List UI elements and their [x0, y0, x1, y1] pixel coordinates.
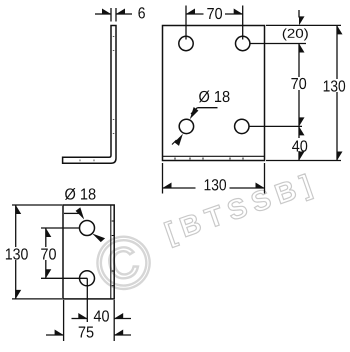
plan hole bottom	[80, 271, 95, 286]
side view L profile	[63, 26, 116, 164]
dimension 75 bottom plan	[46, 334, 131, 336]
bend line plan view	[110, 205, 112, 299]
right side extension lines	[250, 25, 342, 160]
dimension 70 left plan	[41, 228, 87, 278]
dimension 70 top	[186, 6, 243, 40]
plan view rectangle	[63, 205, 114, 299]
bend line front view	[163, 155, 265, 157]
plan hole top	[80, 221, 95, 236]
front view rectangle	[163, 26, 265, 161]
watermark copyright symbol	[92, 231, 156, 295]
dimension 40 right	[298, 126, 300, 160]
bend dots front view	[175, 158, 243, 160]
text 6	[138, 7, 144, 18]
bend dots plan view	[112, 221, 114, 286]
label diameter 18 plan view	[65, 188, 95, 200]
text 70 top	[207, 8, 222, 19]
dimension 40 bottom plan	[72, 318, 132, 320]
hole top-left	[179, 36, 193, 50]
dimension 130 right	[336, 25, 338, 160]
dimension (20) right	[298, 10, 300, 18]
hole bottom-right	[235, 119, 249, 133]
hole bottom-left	[179, 119, 193, 133]
bottom extension lines plan	[64, 278, 115, 341]
dimension 70 right	[298, 44, 300, 127]
dimension 6 (thickness)	[95, 8, 132, 22]
hole top-right	[236, 36, 250, 50]
dimension 130 left plan	[12, 205, 62, 299]
side view hole tick marks	[80, 37, 114, 162]
dimension 130 bottom of front view	[163, 163, 265, 194]
label diameter 18 front view	[199, 91, 229, 103]
watermark BTSSB text	[164, 174, 314, 248]
